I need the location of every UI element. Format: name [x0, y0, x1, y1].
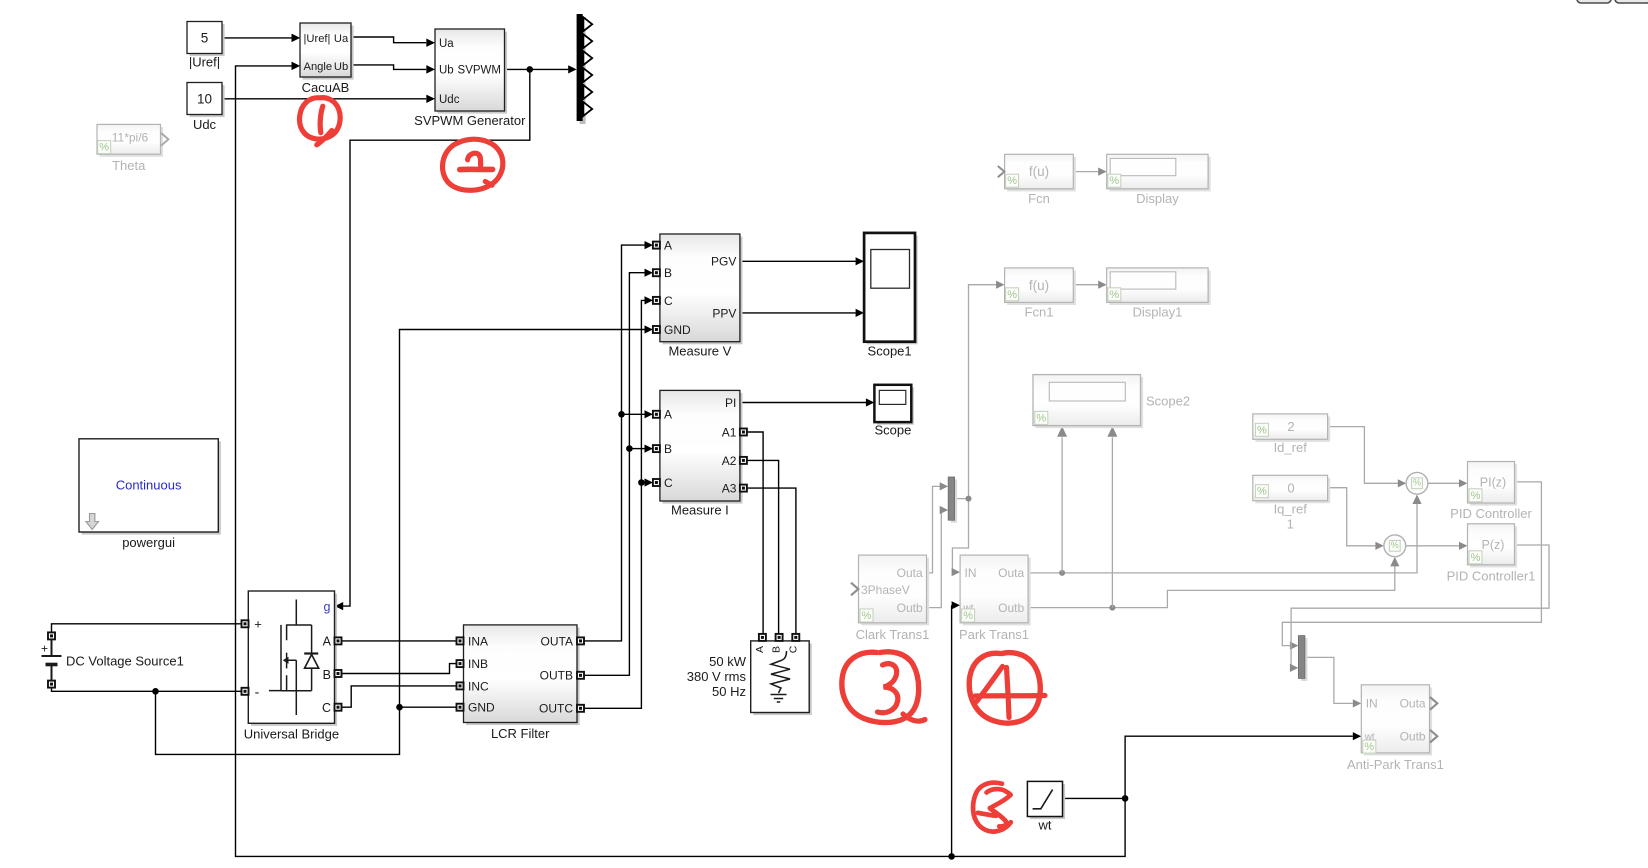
svg-text:A: A: [664, 239, 672, 253]
svg-text:%: %: [1109, 289, 1119, 301]
ghost wire PID Controller1 output to mux2: [1290, 545, 1549, 672]
ghost sum junction 2: [1384, 535, 1406, 557]
svg-text:|Uref|: |Uref|: [304, 33, 331, 45]
ghost constant Id_ref value 2: [1253, 414, 1330, 455]
svg-text:Outa: Outa: [897, 566, 923, 580]
svg-text:OUTA: OUTA: [541, 634, 573, 648]
svg-text:Udc: Udc: [439, 94, 460, 106]
svg-text:INA: INA: [468, 634, 488, 648]
wire Measure I A2 to load B: [747, 460, 779, 634]
svg-text:Fcn1: Fcn1: [1025, 305, 1054, 320]
svg-text:Clark Trans1: Clark Trans1: [856, 627, 930, 642]
wire Udc10 to SVPWM Udc: [222, 95, 435, 103]
svg-text:%: %: [963, 610, 973, 622]
svg-text:SVPWM Generator: SVPWM Generator: [414, 113, 526, 128]
wire Measure V PGV to Scope1: [740, 257, 864, 265]
svg-text:Fcn: Fcn: [1028, 191, 1050, 206]
svg-text:Continuous: Continuous: [116, 478, 182, 493]
ghost Park Trans1 block: [959, 555, 1031, 642]
ghost constant Iq_ref value 0: [1253, 475, 1330, 531]
svg-text:IN: IN: [965, 566, 977, 580]
svg-text:SVPWM: SVPWM: [458, 65, 501, 77]
svg-text:Outb: Outb: [1400, 730, 1426, 744]
svg-text:wt: wt: [1038, 818, 1052, 833]
svg-text:C: C: [664, 294, 673, 308]
svg-text:%: %: [1257, 424, 1267, 436]
ghost junction mux out: [966, 496, 972, 502]
wire LCR OUTC to Measure V C: [584, 296, 653, 708]
svg-text:f(u): f(u): [1029, 164, 1049, 179]
svg-text:A3: A3: [722, 482, 737, 496]
svg-text:%: %: [1036, 412, 1046, 424]
svg-text:380 V rms: 380 V rms: [687, 669, 747, 684]
svg-text:+: +: [254, 616, 262, 631]
svg-text:OUTB: OUTB: [540, 669, 573, 683]
constant |Uref| value 5: [187, 22, 225, 70]
svg-text:%: %: [99, 142, 109, 154]
svg-text:%: %: [862, 610, 872, 622]
red annotation circle 3: [842, 652, 925, 723]
svg-text:5: 5: [201, 31, 209, 46]
ghost junction Outb to Scope2: [1107, 426, 1117, 610]
svg-text:2: 2: [1287, 419, 1294, 434]
svg-text:+: +: [41, 642, 48, 656]
svg-text:B: B: [664, 266, 672, 280]
svg-text:A: A: [754, 646, 766, 653]
wire Uref5 to CacuAB: [222, 34, 300, 42]
svg-text:Anti-Park Trans1: Anti-Park Trans1: [1347, 757, 1444, 772]
svg-text:IN: IN: [1366, 697, 1378, 711]
svg-text:B: B: [771, 646, 783, 653]
svg-text:Ub: Ub: [439, 65, 454, 77]
svg-text:Scope1: Scope1: [868, 344, 912, 359]
DC Voltage Source1: [41, 632, 184, 687]
ghost mux PID outputs: [1298, 636, 1307, 681]
junction ground bus to LCR GND: [396, 704, 456, 711]
svg-text:P(z): P(z): [1482, 538, 1505, 552]
ghost PID Controller1 P(z): [1447, 524, 1536, 584]
svg-text:B: B: [323, 668, 331, 682]
svg-text:Park Trans1: Park Trans1: [959, 627, 1029, 642]
svg-text:10: 10: [197, 92, 212, 107]
wt ramp block: [1027, 781, 1065, 832]
wire minus rail to ground bus: [156, 325, 653, 754]
svg-text:Scope: Scope: [874, 423, 911, 438]
wire SVPWM output to bridge gate g: [335, 69, 530, 610]
wire wt to angle bus and CacuAB Angle: [236, 62, 1126, 857]
svg-text:INC: INC: [468, 679, 489, 693]
ghost wire Clark Outa to mux: [927, 482, 949, 573]
svg-text:50 kW: 50 kW: [709, 654, 747, 669]
ghost wire Fcn1 to Display1: [1073, 281, 1106, 289]
svg-text:PPV: PPV: [712, 306, 736, 320]
ghost wire sum2 to PID Controller1: [1406, 542, 1468, 550]
wire bridge A to LCR INA: [341, 640, 456, 642]
svg-text:LCR Filter: LCR Filter: [491, 726, 550, 741]
svg-text:%: %: [1007, 289, 1017, 301]
wire Measure I PI to Scope: [740, 398, 874, 406]
ghost wire Iq_ref to sum2: [1328, 488, 1384, 550]
wire Measure I A1 to load A: [747, 432, 763, 634]
svg-text:PI(z): PI(z): [1480, 476, 1506, 490]
svg-text:CacuAB: CacuAB: [302, 80, 350, 95]
svg-text:Iq_ref: Iq_ref: [1274, 502, 1308, 517]
svg-text:GND: GND: [664, 323, 691, 337]
junction phase C tap to Measure I: [638, 478, 653, 486]
svg-text:powergui: powergui: [122, 535, 175, 550]
svg-text:PI: PI: [725, 396, 736, 410]
ghost wire Id_ref to sum1: [1328, 427, 1406, 488]
ghost Clark Trans1 block: [851, 555, 929, 642]
ghost wire Fcn to Display: [1073, 168, 1106, 176]
wire DC source minus to bridge: [52, 688, 242, 692]
ghost wire Park Outb feedback to sum2: [1028, 557, 1399, 608]
ghost Fcn block: [998, 154, 1076, 206]
red annotation circle 5: [973, 783, 1011, 832]
junction phase B tap to Measure I: [626, 445, 653, 453]
svg-text:Display1: Display1: [1132, 305, 1182, 320]
svg-text:%: %: [1364, 741, 1374, 753]
svg-text:PID Controller: PID Controller: [1450, 506, 1532, 521]
ghost Fcn1 block: [1005, 268, 1076, 320]
ghost Display block: [1107, 154, 1211, 206]
svg-text:g: g: [324, 600, 331, 614]
svg-text:Ua: Ua: [334, 33, 349, 45]
red annotation circle 4: [969, 653, 1045, 723]
svg-text:C: C: [787, 645, 799, 653]
svg-text:11*pi/6: 11*pi/6: [112, 131, 149, 145]
svg-text:Udc: Udc: [193, 117, 217, 132]
wire Measure I A3 to load C: [747, 488, 796, 634]
svg-text:-: -: [255, 684, 260, 700]
svg-text:Display: Display: [1136, 191, 1179, 206]
junction SVPWM output: [527, 66, 534, 73]
subsystem Measure I: [653, 390, 747, 517]
svg-text:PID Controller1: PID Controller1: [1447, 569, 1536, 584]
svg-text:A2: A2: [722, 454, 737, 468]
demux PWM gates: [577, 14, 593, 124]
ghost wire PID Controller output to mux2: [1282, 482, 1541, 650]
junction minus rail: [152, 688, 159, 695]
svg-text:Angle: Angle: [304, 61, 333, 73]
svg-text:Theta: Theta: [112, 158, 146, 173]
svg-text:C: C: [664, 476, 673, 490]
svg-text:|Uref|: |Uref|: [189, 55, 220, 70]
ghost PID Controller PI(z): [1450, 462, 1532, 522]
ghost Anti-Park Trans1 block: [1347, 685, 1444, 772]
wire wt ramp to Anti-Park wt: [1063, 732, 1362, 798]
ghost wire mux2 to Anti-Park IN: [1305, 657, 1361, 707]
svg-text:1: 1: [1287, 517, 1294, 532]
svg-text:%: %: [1471, 552, 1481, 564]
svg-text:OUTC: OUTC: [539, 702, 573, 716]
junction phase A tap to Measure I: [618, 410, 653, 418]
wire CacuAB Ub to SVPWM Ub: [351, 65, 435, 74]
wire bridge B to LCR INB: [341, 664, 456, 674]
ghost sum junction 1: [1406, 472, 1428, 494]
svg-text:0: 0: [1287, 481, 1294, 496]
ghost mux Clark outputs: [948, 477, 957, 523]
svg-text:%: %: [1391, 540, 1399, 550]
UI buttons top-right: [1577, 0, 1648, 3]
wire LCR OUTB to Measure V B: [584, 269, 653, 676]
svg-text:%: %: [1109, 175, 1119, 187]
svg-text:f(u): f(u): [1029, 278, 1049, 293]
wire LCR OUTA to Measure V A: [584, 241, 653, 641]
subsystem CacuAB: [292, 23, 354, 95]
ghost constant Theta 11*pi/6: [97, 124, 168, 173]
wire DC source plus to bridge: [52, 624, 242, 633]
svg-text:%: %: [1257, 486, 1267, 498]
subsystem Measure V: [653, 234, 743, 359]
Scope: [874, 385, 914, 438]
svg-text:Universal Bridge: Universal Bridge: [244, 727, 339, 742]
svg-text:50 Hz: 50 Hz: [712, 684, 746, 699]
ghost wire sum1 to PID Controller: [1428, 479, 1467, 487]
svg-text:A: A: [323, 635, 332, 649]
Scope1: [864, 233, 918, 359]
svg-text:%: %: [1471, 490, 1481, 502]
svg-text:Outa: Outa: [998, 566, 1024, 580]
svg-text:INB: INB: [468, 657, 488, 671]
three-phase load 50kW: [687, 634, 812, 715]
ghost Scope2 block: [1033, 375, 1190, 429]
svg-text:DC Voltage Source1: DC Voltage Source1: [66, 654, 184, 669]
svg-text:Outb: Outb: [998, 601, 1024, 615]
wire SVPWM output to Demux: [505, 65, 577, 73]
wire Measure V PPV to Scope1: [740, 309, 864, 317]
svg-text:GND: GND: [468, 701, 495, 715]
ghost wire Clark Outb to mux: [927, 506, 949, 608]
subsystem SVPWM Generator: [414, 29, 526, 128]
svg-text:Measure I: Measure I: [671, 503, 729, 518]
constant Udc value 10: [187, 83, 225, 133]
wire bridge C to LCR INC: [341, 686, 456, 707]
svg-text:Ua: Ua: [439, 38, 454, 50]
ghost Display1 block: [1107, 268, 1211, 320]
svg-text:3PhaseV: 3PhaseV: [861, 583, 910, 597]
svg-text:A1: A1: [722, 425, 737, 439]
powergui block: [79, 439, 221, 550]
ghost junction Outa to Scope2: [1057, 426, 1067, 576]
svg-text:Measure V: Measure V: [668, 344, 731, 359]
ghost wire Park Outa feedback to sum1: [1028, 495, 1422, 573]
wire CacuAB Ua to SVPWM Ua: [351, 37, 435, 47]
svg-text:Ub: Ub: [334, 61, 348, 73]
svg-text:PGV: PGV: [711, 255, 736, 269]
subsystem LCR Filter: [457, 625, 585, 741]
red annotation circle 1: [300, 98, 341, 145]
svg-text:Outa: Outa: [1400, 697, 1426, 711]
svg-text:Outb: Outb: [897, 601, 923, 615]
ghost wire mux to Park IN: [952, 499, 969, 577]
Universal Bridge: [242, 591, 342, 742]
svg-text:%: %: [1007, 175, 1017, 187]
svg-text:Id_ref: Id_ref: [1274, 440, 1308, 455]
junction angle bus to Park wt: [948, 601, 960, 860]
svg-text:C: C: [322, 701, 331, 715]
svg-text:Scope2: Scope2: [1146, 394, 1190, 409]
red annotation circle 2: [443, 139, 503, 190]
svg-text:B: B: [664, 442, 672, 456]
junction wt output: [1122, 795, 1129, 802]
svg-text:A: A: [664, 408, 672, 422]
ghost wire mux to Fcn1 input: [969, 281, 1005, 499]
svg-text:%: %: [1413, 478, 1421, 488]
